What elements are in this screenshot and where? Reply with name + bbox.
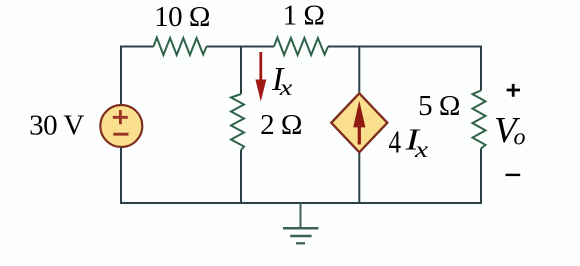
voltage source minus sign (113, 133, 128, 136)
svg-text:30 V: 30 V (29, 110, 84, 142)
voltage source 30 V (100, 105, 142, 147)
svg-text:o: o (514, 124, 526, 150)
ground (283, 203, 318, 243)
wire middle branch lower (240, 150, 242, 204)
svg-text:x: x (414, 137, 429, 162)
current arrow Ix (255, 52, 266, 102)
wire right branch upper (480, 46, 482, 91)
wire right branch lower (480, 149, 482, 205)
dependent current source 4Ix diamond (331, 93, 387, 152)
resistor 2 Ohm (231, 94, 244, 150)
resistor 5 Ohm (473, 91, 486, 149)
dependent source arrow up (353, 101, 365, 145)
svg-text:4: 4 (389, 124, 402, 160)
svg-text:1 Ω: 1 Ω (283, 0, 325, 32)
label Vo minus sign (506, 174, 521, 176)
wire top rail right segment (328, 46, 482, 48)
wire top rail middle segment (207, 46, 275, 48)
voltage source plus sign (113, 110, 128, 124)
svg-text:10 Ω: 10 Ω (154, 1, 210, 33)
wire left branch lower (120, 148, 122, 205)
svg-text:2 Ω: 2 Ω (260, 109, 302, 141)
wire top rail left segment (121, 46, 154, 48)
wire left branch upper (120, 46, 122, 105)
label Vo plus sign (507, 84, 520, 97)
svg-text:x: x (279, 75, 294, 100)
wire dependent source branch upper (358, 46, 360, 93)
wire bottom rail (120, 202, 482, 204)
svg-text:5 Ω: 5 Ω (418, 90, 460, 122)
resistor 10 Ohm (154, 38, 207, 56)
wire dependent source branch lower (358, 153, 360, 204)
wire middle branch upper (240, 46, 242, 95)
resistor 1 Ohm (274, 38, 328, 56)
